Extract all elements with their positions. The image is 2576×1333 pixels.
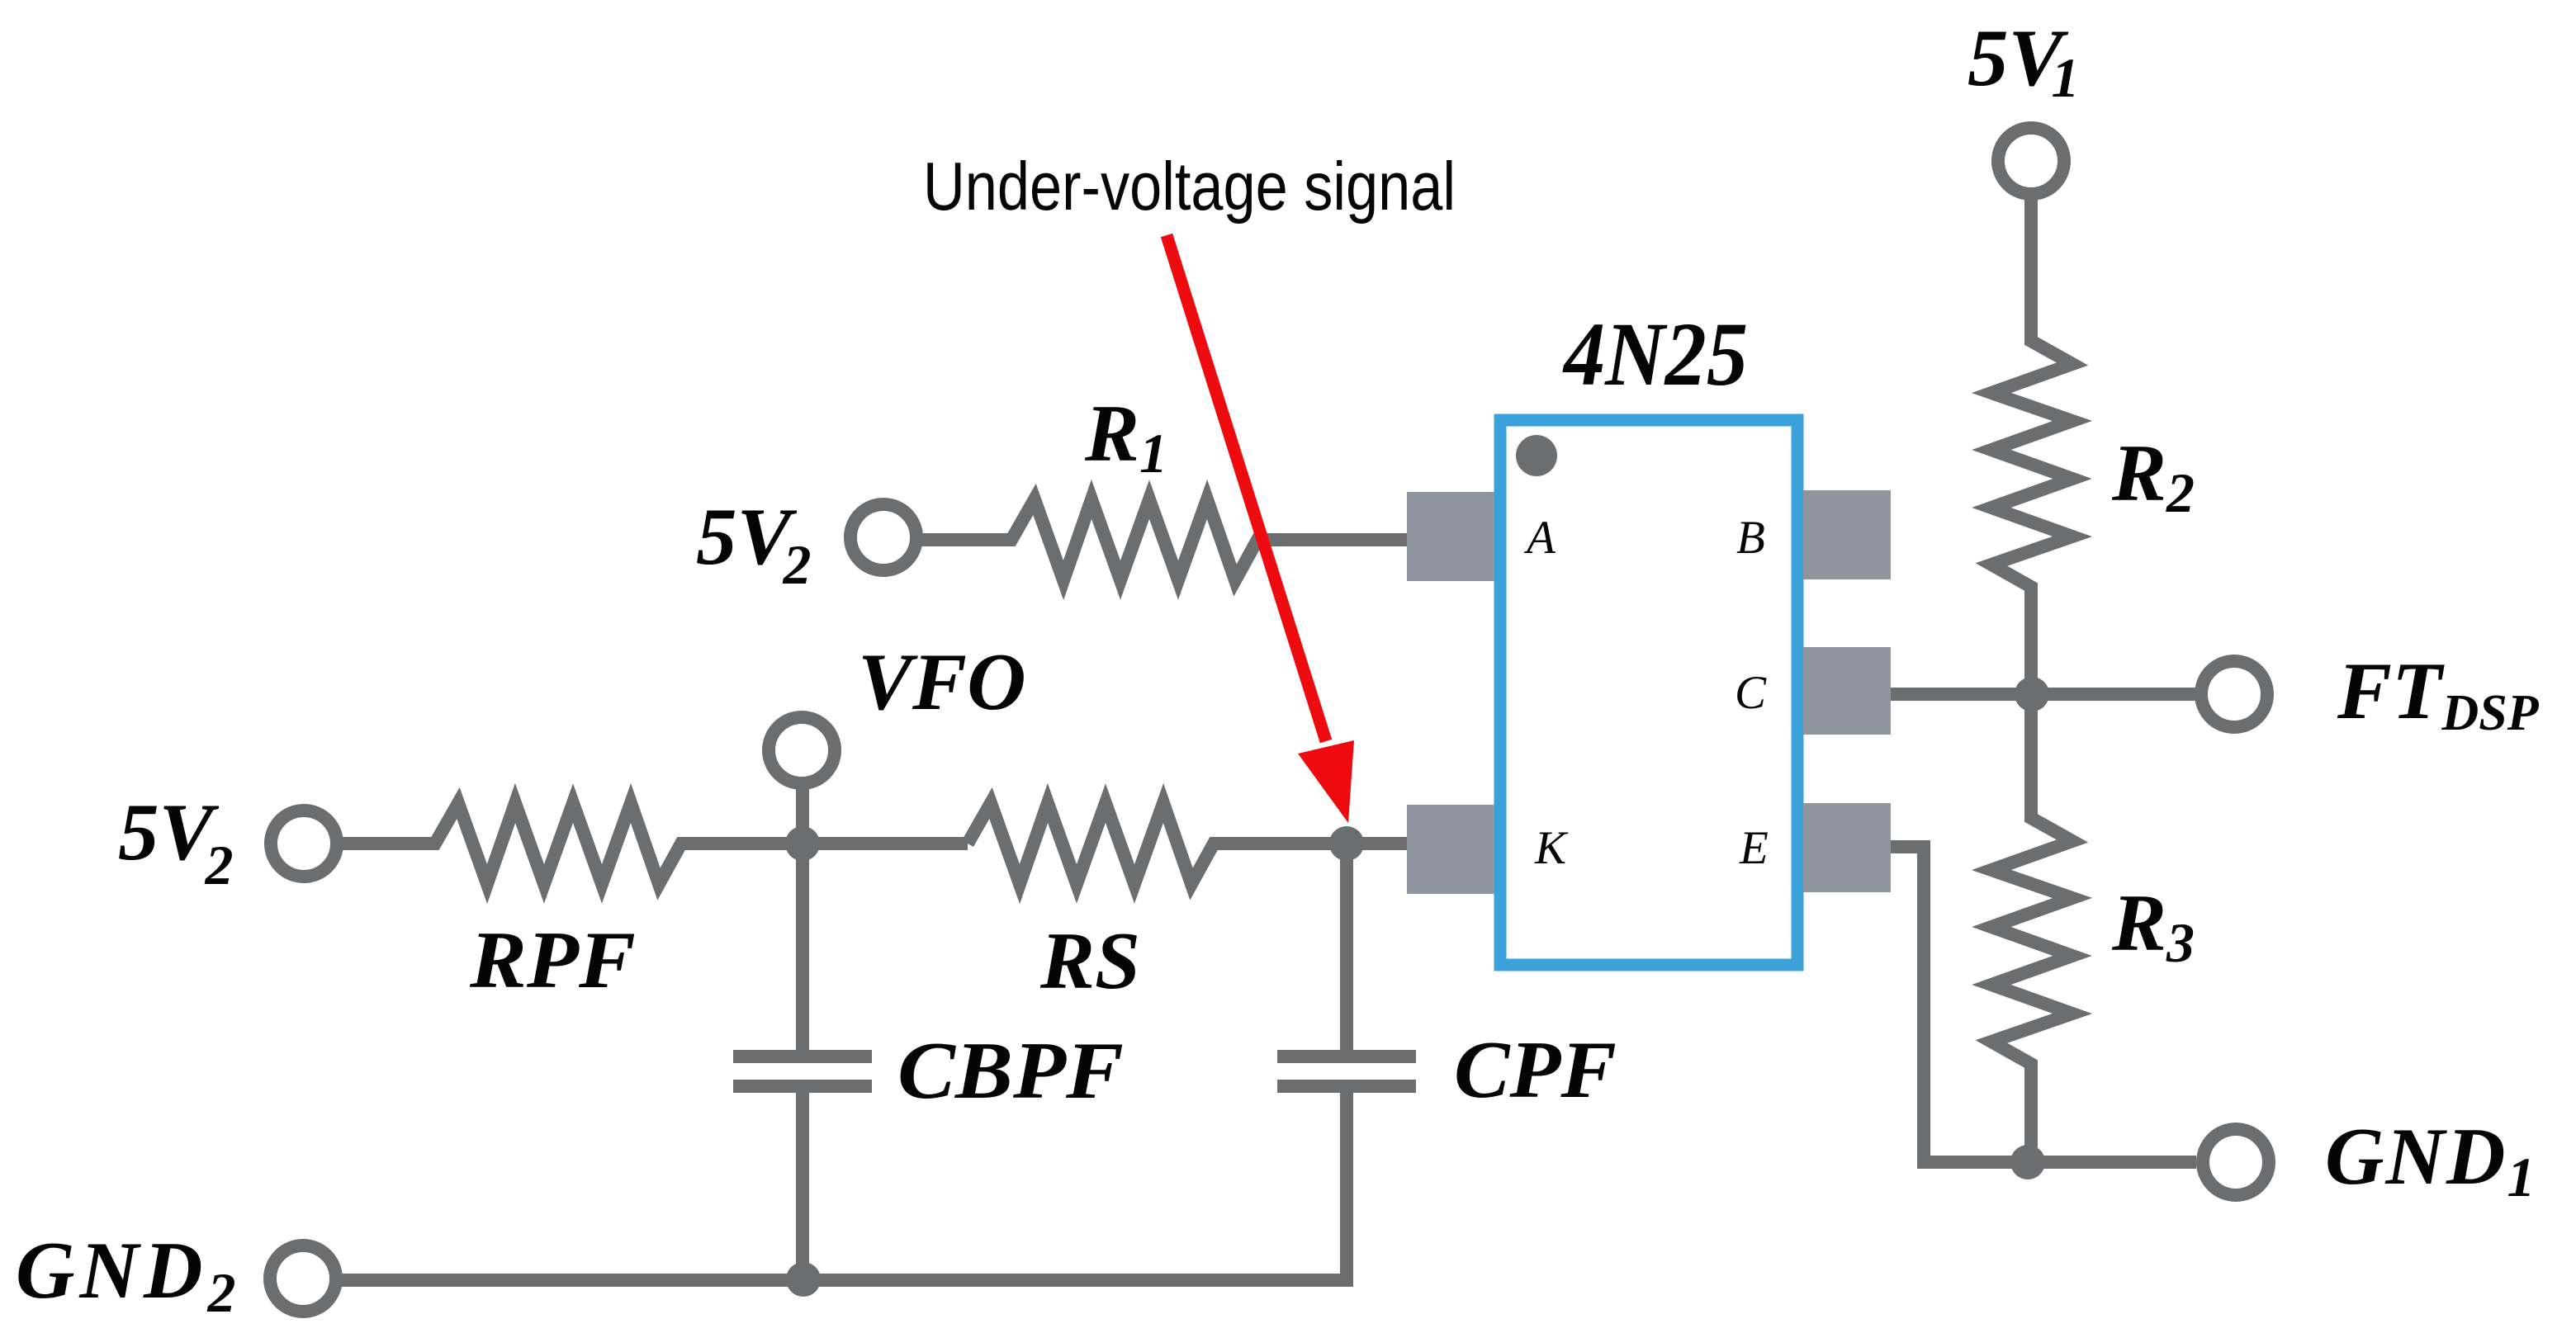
wire: pin E elbow down to GND1 rail (1891, 847, 2196, 1162)
red under-voltage arrow head (1298, 740, 1354, 823)
terminal VFO (769, 717, 835, 783)
terminal 5V2 lower (271, 811, 337, 877)
red under-voltage arrow shaft (1167, 235, 1326, 741)
wire: GND2 terminal bottom rail (341, 1274, 1353, 1287)
pin A pad (1407, 492, 1494, 581)
svg-text:K: K (1534, 822, 1569, 874)
capacitor CBPF (733, 1056, 872, 1086)
resistor RPF with lead from 5V2 (340, 803, 968, 884)
wire: node to capacitor CBPF top plate (796, 844, 809, 1050)
svg-text:4N25: 4N25 (1562, 304, 1748, 404)
svg-text:B: B (1736, 512, 1765, 564)
svg-text:Under-voltage signal: Under-voltage signal (923, 148, 1456, 225)
resistor R2 with stem from 5V1 and lead to collector node (1991, 197, 2072, 701)
wire: pin C to FT_DSP terminal (1891, 688, 2196, 701)
svg-text:GND2: GND2 (16, 1226, 240, 1324)
capacitor CPF (1277, 1056, 1416, 1086)
svg-text:C: C (1735, 667, 1767, 719)
wire: CBPF bottom plate to ground wire (796, 1093, 809, 1280)
terminal GND2 (270, 1246, 336, 1312)
wire: VFO terminal stem (796, 785, 809, 850)
svg-text:CPF: CPF (1454, 1025, 1617, 1115)
wire: node to capacitor CPF top plate (1340, 844, 1353, 1050)
junction node at VFO (785, 826, 820, 861)
junction node under-voltage at pin K (1329, 826, 1364, 861)
pin C pad (1803, 647, 1891, 735)
svg-text:VFO: VFO (858, 637, 1026, 727)
pin K pad (1407, 805, 1494, 894)
resistor RS with lead to pin K (968, 803, 1409, 884)
junction node on ground rail below CBPF (786, 1262, 821, 1297)
junction node at collector (2015, 677, 2049, 711)
pin 1 marker dot (1516, 435, 1557, 476)
svg-text:CBPF: CBPF (897, 1026, 1124, 1116)
terminal 5V2 upper (850, 504, 916, 570)
svg-text:E: E (1739, 822, 1769, 874)
resistor R1 with leads (920, 499, 1409, 580)
junction node at GND1 rail (2010, 1145, 2045, 1179)
terminal 5V1 (1998, 128, 2064, 194)
resistor R3 with leads to collector node and GND1 rail (1991, 694, 2072, 1169)
svg-text:5V1: 5V1 (1968, 13, 2080, 109)
terminal GND1 (2203, 1129, 2269, 1195)
svg-text:RS: RS (1039, 916, 1140, 1006)
optocoupler U1 4N25 body (1500, 420, 1797, 965)
wire: CPF bottom plate down (1340, 1093, 1353, 1280)
pin E pad (1803, 803, 1891, 892)
svg-text:RPF: RPF (469, 915, 636, 1005)
terminal FT_DSP (2201, 661, 2267, 727)
svg-text:A: A (1523, 512, 1556, 564)
svg-text:GND1: GND1 (2325, 1112, 2536, 1208)
pin B pad (1803, 490, 1891, 579)
